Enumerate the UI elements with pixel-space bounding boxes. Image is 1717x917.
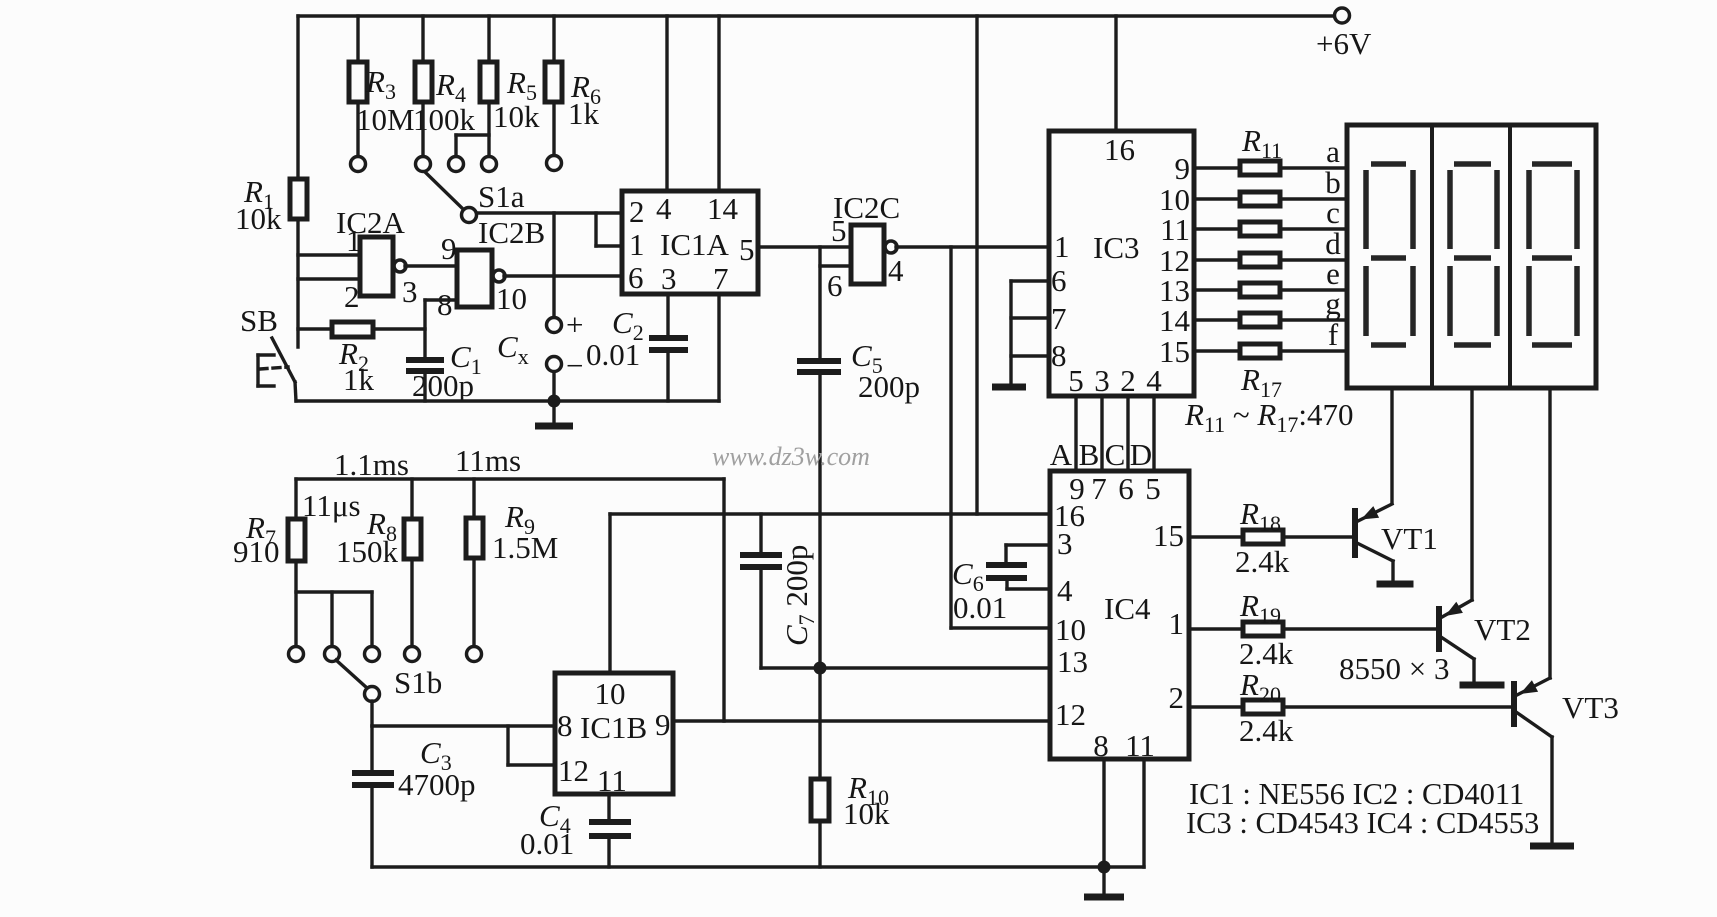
capacitor Cx label xyxy=(497,329,529,369)
wire stub to IC1A pin1 xyxy=(596,213,622,246)
resistor R16 xyxy=(1240,313,1280,327)
node segment e label xyxy=(1326,256,1340,291)
svg-text:10M: 10M xyxy=(356,102,415,137)
wire R6 lead xyxy=(552,102,555,155)
svg-text:0.01: 0.01 xyxy=(953,590,1007,625)
svg-text:10k: 10k xyxy=(235,201,282,236)
svg-text:1.1ms: 1.1ms xyxy=(334,447,409,482)
svg-text:1: 1 xyxy=(346,223,362,258)
wire digit1 cathode lead xyxy=(1390,388,1393,503)
gate IC2C xyxy=(827,190,904,303)
ground symbol VT3 xyxy=(1530,843,1574,850)
node S1b contact 1 xyxy=(289,647,304,662)
svg-text:C7 200p: C7 200p xyxy=(779,545,819,646)
wire junction to R10 xyxy=(818,668,821,779)
svg-text:f: f xyxy=(1328,317,1339,352)
svg-text:15: 15 xyxy=(1159,334,1190,369)
svg-text:IC3 : CD4543 IC4 : CD4553: IC3 : CD4543 IC4 : CD4553 xyxy=(1186,806,1539,840)
wire rail to R1 xyxy=(296,16,299,179)
wire IC3 pin11 to R13 xyxy=(1194,227,1240,230)
node Cx plus terminal xyxy=(547,307,584,342)
svg-text:5: 5 xyxy=(831,213,847,248)
node S1b contact 4 xyxy=(405,647,420,662)
wire R19 to VT2 base xyxy=(1283,627,1436,630)
svg-text:IC1B: IC1B xyxy=(580,710,647,745)
resistor R4 xyxy=(413,16,476,137)
wire VT1 collector to ground xyxy=(1357,543,1393,581)
node +6V terminal xyxy=(1316,8,1372,61)
wire rail to VDD net xyxy=(975,16,978,514)
wire R18 to VT1 base xyxy=(1283,535,1354,538)
svg-text:+6V: +6V xyxy=(1316,26,1372,61)
svg-text:10: 10 xyxy=(1055,612,1086,647)
svg-text:9: 9 xyxy=(655,707,671,742)
op-amp U IC3 box xyxy=(1049,131,1194,398)
ground symbol VT2 xyxy=(1460,682,1505,689)
resistor R11 xyxy=(1240,161,1280,175)
node S1a contact 5 xyxy=(547,156,562,171)
svg-text:0.01: 0.01 xyxy=(520,826,574,861)
wire C6 to IC4 pin4 xyxy=(1007,578,1050,589)
wire Cx to ground rail xyxy=(552,372,555,401)
svg-text:200p: 200p xyxy=(858,369,920,404)
note 8550x3 xyxy=(1339,651,1449,686)
wire R17 to segment f xyxy=(1280,349,1347,352)
wire R8 lead xyxy=(410,559,413,646)
node segment g label xyxy=(1325,286,1341,321)
svg-text:8: 8 xyxy=(557,708,573,743)
node segment d label xyxy=(1325,226,1341,261)
note IC list line2 xyxy=(1186,806,1539,840)
wire IC2A input 2 xyxy=(298,277,360,280)
wire bottom rail xyxy=(372,865,1144,868)
wire R2 to C1 node xyxy=(373,327,425,330)
svg-text:12: 12 xyxy=(558,753,589,788)
wire C3 to bottom rail xyxy=(370,785,373,867)
node S1a contact 4 xyxy=(482,157,497,172)
svg-text:1k: 1k xyxy=(343,362,375,397)
svg-text:7: 7 xyxy=(1051,301,1067,336)
wire IC1B pin9 to IC4 pin12 xyxy=(673,719,1050,722)
wire IC1A pin5 to IC2C pin5 xyxy=(758,245,851,248)
wire IC3 pin2 to IC4 C xyxy=(1126,396,1129,471)
node S1b contact 3 xyxy=(365,647,380,662)
svg-text:5: 5 xyxy=(739,232,755,267)
wire IC2C pin6 tie xyxy=(820,247,851,361)
capacitor C6 xyxy=(952,556,1027,625)
display 3-digit 7-segment xyxy=(1347,125,1596,388)
svg-text:A: A xyxy=(1050,437,1073,472)
svg-text:13: 13 xyxy=(1057,644,1088,679)
wire IC2C out to IC3 pin1 xyxy=(896,245,1049,248)
wire IC1A pin7 to ground rail xyxy=(717,294,720,401)
pin IC3 12 label xyxy=(1159,243,1190,278)
ground symbol IC3 xyxy=(992,384,1026,391)
resistor R1 xyxy=(235,174,307,236)
svg-text:0.01: 0.01 xyxy=(586,337,640,372)
node B label xyxy=(1079,437,1100,472)
resistor R18 xyxy=(1235,496,1290,579)
capacitor C1 xyxy=(406,339,482,403)
svg-text:10: 10 xyxy=(496,281,527,316)
wire R1 node to R2 xyxy=(298,327,332,330)
wire R1 to SB xyxy=(296,219,299,347)
svg-text:S1a: S1a xyxy=(478,179,525,214)
svg-text:8: 8 xyxy=(1093,728,1109,763)
svg-text:2: 2 xyxy=(1169,680,1185,715)
svg-text:4: 4 xyxy=(888,253,904,288)
svg-text:2.4k: 2.4k xyxy=(1235,544,1290,579)
svg-text:VT2: VT2 xyxy=(1474,612,1531,647)
svg-text:+: + xyxy=(566,307,583,342)
resistor R9 xyxy=(466,499,558,565)
node S1b contact 5 xyxy=(467,647,482,662)
wire S1a node to Cx+ xyxy=(552,213,555,317)
svg-text:2.4k: 2.4k xyxy=(1239,636,1294,671)
note watermark xyxy=(712,442,870,471)
svg-text:10k: 10k xyxy=(843,796,890,831)
wire IC3 pin13 to R15 xyxy=(1194,288,1240,291)
svg-text:2: 2 xyxy=(1120,363,1136,398)
wire R15 to segment e xyxy=(1280,288,1347,291)
capacitor C3 xyxy=(352,735,476,802)
resistor R8 xyxy=(336,506,421,569)
wire IC2B pin8 xyxy=(425,298,457,301)
ground symbol IC4 xyxy=(1084,867,1124,897)
note R11-R17 value xyxy=(1184,397,1353,437)
svg-text:6: 6 xyxy=(1051,263,1067,298)
gate IC2B xyxy=(437,215,545,322)
wire IC2A input 1 xyxy=(298,253,360,256)
svg-text:200p: 200p xyxy=(412,368,474,403)
wire IC4 pin15 to R18 xyxy=(1189,535,1243,538)
ground symbol Cx xyxy=(535,401,573,426)
wire R5 jog to contact 3 xyxy=(456,135,489,156)
pin IC3 15 label xyxy=(1159,334,1190,369)
svg-text:14: 14 xyxy=(1159,303,1191,338)
switch S1b wiper xyxy=(336,660,442,702)
wire rail to IC1A pin4 xyxy=(665,16,668,191)
svg-text:IC1A: IC1A xyxy=(660,227,730,262)
svg-text:SB: SB xyxy=(240,303,278,338)
node segment c label xyxy=(1326,195,1340,230)
svg-text:5: 5 xyxy=(1145,471,1161,506)
svg-text:910: 910 xyxy=(233,534,280,569)
svg-text:5: 5 xyxy=(1068,363,1084,398)
svg-text:IC4: IC4 xyxy=(1104,591,1151,626)
node A label xyxy=(1050,437,1073,472)
svg-text:1: 1 xyxy=(1169,606,1185,641)
resistor R11 label xyxy=(1241,123,1282,163)
wire R3 lead xyxy=(356,102,359,156)
node S1a contact 2 xyxy=(416,157,431,172)
svg-text:VT3: VT3 xyxy=(1562,690,1619,725)
wire S1b to IC1B pin8 xyxy=(372,701,555,726)
transistor VT2 xyxy=(1439,600,1531,652)
node segment f label xyxy=(1328,317,1339,352)
wire VDD riser to IC1B pin10 xyxy=(608,514,611,673)
wire IC3 pin12 to R14 xyxy=(1194,258,1240,261)
svg-text:11: 11 xyxy=(1160,212,1190,247)
switch SB xyxy=(240,303,295,386)
svg-text:2.4k: 2.4k xyxy=(1239,713,1294,748)
node junction Cx-ground xyxy=(548,395,561,408)
wire digit2 cathode lead xyxy=(1470,388,1473,600)
svg-text:1.5M: 1.5M xyxy=(492,530,558,565)
svg-text:4: 4 xyxy=(656,191,672,226)
svg-text:1: 1 xyxy=(629,227,645,262)
wire IC3 pin9 to R11 xyxy=(1194,166,1240,169)
resistor R10 xyxy=(811,770,890,831)
svg-text:7: 7 xyxy=(1091,471,1107,506)
node S1b contact 2 xyxy=(325,647,340,662)
svg-text:11ms: 11ms xyxy=(455,443,521,478)
svg-text:16: 16 xyxy=(1104,132,1135,167)
wire rail to IC3 pin16 xyxy=(1114,16,1117,131)
svg-text:D: D xyxy=(1130,437,1152,472)
wire R12 to segment b xyxy=(1280,197,1347,200)
wire IC2A out to IC2B pin9 xyxy=(405,264,457,267)
svg-text:IC2B: IC2B xyxy=(478,215,545,250)
svg-text:a: a xyxy=(1326,134,1340,169)
transistor VT1 xyxy=(1355,504,1438,558)
svg-text:10k: 10k xyxy=(493,99,540,134)
wire R9 lead xyxy=(472,558,475,646)
wire IC3 pin5 to IC4 A xyxy=(1074,396,1077,471)
svg-text:12: 12 xyxy=(1055,697,1086,732)
transistor VT3 xyxy=(1514,678,1619,727)
pin IC3 9 label xyxy=(1175,151,1191,186)
resistor R12 xyxy=(1240,192,1280,206)
svg-text:6: 6 xyxy=(1118,471,1134,506)
svg-text:11: 11 xyxy=(1125,728,1155,763)
wire IC4 pin3 to C6 xyxy=(1006,545,1050,563)
svg-text:VT1: VT1 xyxy=(1381,521,1438,556)
resistor R3 xyxy=(349,16,415,137)
pin IC3 14 label xyxy=(1159,303,1191,338)
node segment a label xyxy=(1326,134,1340,169)
svg-text:2: 2 xyxy=(629,194,645,229)
op-amp U IC1A box xyxy=(622,191,758,296)
pin IC3 13 label xyxy=(1159,273,1190,308)
svg-text:9: 9 xyxy=(1175,151,1191,186)
resistor R19 xyxy=(1239,588,1294,671)
svg-text:4: 4 xyxy=(1057,573,1073,608)
pin IC3 11 label xyxy=(1160,212,1190,247)
wire IC3 pin10 to R12 xyxy=(1194,197,1240,200)
svg-text:www.dz3w.com: www.dz3w.com xyxy=(712,442,870,471)
wire IC4 pin2 to R20 xyxy=(1189,705,1243,708)
svg-text:2: 2 xyxy=(344,279,360,314)
wire rail to IC1A pin14 xyxy=(717,16,720,191)
resistor R17 xyxy=(1240,344,1280,358)
wire R5 lead xyxy=(487,102,490,156)
wire C1 node vertical xyxy=(423,300,426,358)
svg-text:8550 × 3: 8550 × 3 xyxy=(1339,651,1449,686)
svg-text:150k: 150k xyxy=(336,534,399,569)
capacitor C7 xyxy=(740,514,819,646)
svg-text:S1b: S1b xyxy=(394,665,442,700)
svg-text:9: 9 xyxy=(441,231,457,266)
wire C5 down to junction xyxy=(818,372,821,668)
wire IC3 pin4 to IC4 D xyxy=(1152,396,1155,471)
note IC list line1 xyxy=(1189,777,1524,811)
wire IC4 pin8 down xyxy=(1102,759,1105,867)
resistor R5 xyxy=(480,16,540,134)
note 11ms xyxy=(455,443,521,478)
wire IC3 pin15 to R17 xyxy=(1194,349,1240,352)
node D label xyxy=(1130,437,1152,472)
wire bus to R8 xyxy=(410,479,413,519)
wire IC3 pin14 to R16 xyxy=(1194,318,1240,321)
wire R16 to segment g xyxy=(1280,318,1347,321)
capacitor C5 xyxy=(797,338,920,404)
svg-text:g: g xyxy=(1325,286,1341,321)
svg-text:C: C xyxy=(1105,437,1126,472)
wire bus riser xyxy=(722,479,725,721)
wire IC3 pins bracket xyxy=(1009,281,1012,384)
wire IC3 pin7 stub xyxy=(1011,316,1049,319)
svg-text:IC3: IC3 xyxy=(1093,230,1140,265)
resistor R14 xyxy=(1240,253,1280,267)
svg-text:3: 3 xyxy=(1094,363,1110,398)
resistor R7 xyxy=(233,488,361,569)
resistor R6 xyxy=(545,16,601,131)
node S1a contact 1 xyxy=(351,157,366,172)
wire C1 to ground rail xyxy=(423,371,426,401)
capacitor C2 xyxy=(586,305,688,372)
switch S1a wiper xyxy=(425,172,525,223)
wire digit3 cathode lead xyxy=(1548,388,1551,678)
wire SB to ground rail xyxy=(295,382,296,401)
wire IC3 pin6 stub xyxy=(1011,279,1049,282)
wire C4 to bottom rail xyxy=(607,836,610,867)
wire S1a to IC1A pin2 xyxy=(477,211,622,214)
node junction IC4 ground xyxy=(1098,861,1111,874)
wire VT2 collector to ground xyxy=(1441,637,1474,683)
wire R10 to bottom rail xyxy=(818,821,821,867)
wire R4 lead xyxy=(421,102,424,156)
svg-text:14: 14 xyxy=(707,191,739,226)
svg-text:3: 3 xyxy=(661,261,677,296)
op-amp U IC1B box xyxy=(555,673,673,798)
capacitor C4 xyxy=(520,798,631,861)
wire IC2C out to IC4 pin10 xyxy=(951,247,1050,628)
resistor R20 xyxy=(1239,667,1294,748)
svg-text:3: 3 xyxy=(402,274,418,309)
wire VT3 collector to ground xyxy=(1516,712,1552,843)
resistor R2 xyxy=(332,322,375,397)
node S1a contact 3 xyxy=(449,157,464,172)
svg-text:−: − xyxy=(566,348,583,383)
wire VDD net horizontal xyxy=(610,512,1050,515)
wire R14 to segment d xyxy=(1280,258,1347,261)
wire timing bus xyxy=(296,477,724,480)
wire bus to R9 xyxy=(472,479,475,518)
wire IC1B pin12 jog xyxy=(508,726,555,765)
wire C2 to ground rail xyxy=(666,350,669,401)
svg-text:3: 3 xyxy=(1057,526,1073,561)
wire S1b node to C3 xyxy=(370,726,373,771)
wire IC3 pin3 to IC4 B xyxy=(1100,396,1103,471)
svg-text:10: 10 xyxy=(595,676,626,711)
wire IC4 pin1 to R19 xyxy=(1189,627,1243,630)
wire bus to R7 xyxy=(294,479,297,519)
op-amp U IC4 box xyxy=(1050,471,1189,763)
svg-text:8: 8 xyxy=(1051,338,1067,373)
svg-text:8: 8 xyxy=(437,287,453,322)
svg-text:c: c xyxy=(1326,195,1340,230)
svg-text:11μs: 11μs xyxy=(302,488,361,523)
svg-text:11: 11 xyxy=(597,763,627,798)
note 1.1ms xyxy=(334,447,409,482)
svg-text:15: 15 xyxy=(1153,518,1184,553)
gate IC2A xyxy=(336,205,418,314)
wire IC3 pin8 stub xyxy=(1011,354,1049,357)
wire IC1B pin11 to C4 xyxy=(607,794,610,820)
svg-text:1k: 1k xyxy=(568,96,600,131)
wire +6V top rail xyxy=(298,14,1333,17)
resistor R17 label xyxy=(1240,362,1282,402)
wire R7 branch xyxy=(296,561,372,646)
wire ground rail top xyxy=(296,399,719,402)
node junction C5-R10 xyxy=(814,662,827,675)
svg-text:B: B xyxy=(1079,437,1100,472)
pin IC3 10 label xyxy=(1159,182,1190,217)
resistor R13 xyxy=(1240,222,1280,236)
svg-text:1: 1 xyxy=(1054,229,1070,264)
wire IC4 pin11 down xyxy=(1142,759,1145,867)
wire IC1A pin3 to C2 xyxy=(666,294,669,336)
node segment b label xyxy=(1325,165,1341,200)
node C label xyxy=(1105,437,1126,472)
node Cx minus terminal xyxy=(547,348,584,383)
wire IC2B out to IC1A pin6 xyxy=(504,274,622,277)
svg-text:7: 7 xyxy=(713,261,729,296)
wire R20 to VT3 base xyxy=(1283,705,1511,708)
svg-text:4700p: 4700p xyxy=(398,767,476,802)
resistor R15 xyxy=(1240,283,1280,297)
wire C7 to IC4 pin13 xyxy=(761,567,1050,668)
svg-text:6: 6 xyxy=(827,268,843,303)
wire R13 to segment c xyxy=(1280,227,1347,230)
svg-text:6: 6 xyxy=(628,260,644,295)
ground symbol VT1 xyxy=(1377,581,1414,588)
wire R11 to segment a xyxy=(1280,166,1347,169)
